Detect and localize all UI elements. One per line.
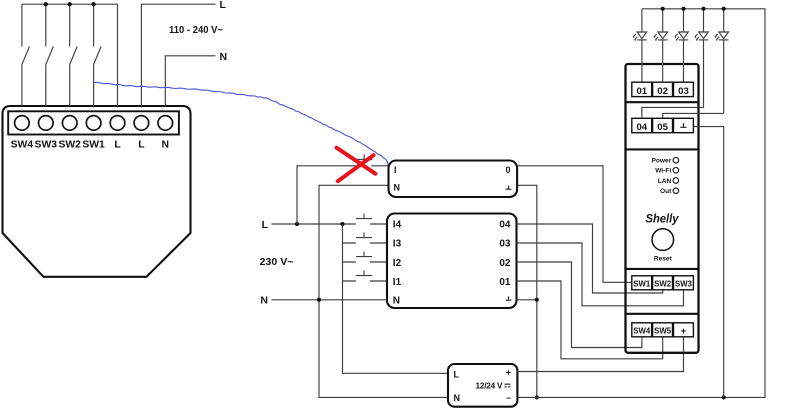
push button at I input <box>356 154 373 159</box>
svg-text:0: 0 <box>505 165 510 175</box>
wire button stub at y=281 <box>343 280 388 282</box>
svg-text:SW2: SW2 <box>654 279 671 289</box>
wire N riser (box1 N / PSU N) <box>319 185 448 397</box>
svg-text:01: 01 <box>636 86 647 97</box>
dc symbol <box>505 384 511 387</box>
svg-text:N: N <box>260 295 268 307</box>
wire 05 terminal to LED D5 <box>663 113 724 118</box>
section divider <box>626 101 699 103</box>
terminal box 01 <box>632 82 652 96</box>
junction dot gnd/gnd <box>535 298 539 302</box>
wire gnd row2 to minus <box>693 127 723 398</box>
device body (Shelly relay module, octagon outline) <box>3 106 191 277</box>
svg-text:N: N <box>220 51 228 63</box>
svg-text:SW4: SW4 <box>633 326 650 336</box>
junction dot minus/gnd-row2 <box>722 395 726 399</box>
svg-text:LAN: LAN <box>658 178 672 185</box>
svg-text:L: L <box>114 140 121 151</box>
wall switch S2 (to SW2) <box>70 4 78 106</box>
wire 04 terminal to LED D4 <box>642 107 704 118</box>
wall switch S3 (to SW3) <box>46 4 54 106</box>
svg-text:230 V~: 230 V~ <box>260 257 294 268</box>
wall switch S1 (to SW1) <box>94 4 102 106</box>
svg-text:110 - 240 V~: 110 - 240 V~ <box>169 24 223 36</box>
junction dot LED bus <box>661 7 665 11</box>
junction dot N line <box>317 298 321 302</box>
terminal box SW3 <box>674 276 694 290</box>
svg-text:L: L <box>138 140 145 151</box>
svg-text:Shelly: Shelly <box>646 214 680 226</box>
svg-text:04: 04 <box>499 220 511 231</box>
svg-text:SW2: SW2 <box>58 140 81 151</box>
wire I input branch (crossed out) <box>297 166 389 224</box>
wire PSU + to plus terminal <box>517 337 683 372</box>
wire button bus to PSU L <box>343 224 449 373</box>
status LED dot Wi-Fi <box>673 168 679 174</box>
screw terminal SW4 <box>15 116 30 131</box>
wire L line to I4 <box>271 223 387 225</box>
wire supply N to terminal N <box>165 56 215 106</box>
svg-text:SW3: SW3 <box>35 140 58 151</box>
wire PSU - to LED bus <box>517 9 765 398</box>
terminal labels row <box>11 140 169 151</box>
wire 01 to SW5 <box>517 281 663 359</box>
LED D1 <box>633 9 646 82</box>
svg-text:SW3: SW3 <box>675 279 692 289</box>
svg-text:03: 03 <box>499 239 511 250</box>
wire 03 to SW3 <box>517 243 684 306</box>
terminal box + (row D) <box>674 323 694 337</box>
junction dot LED bus <box>701 7 705 11</box>
svg-text:I1: I1 <box>393 277 402 288</box>
wire 04 to SW2 <box>517 224 663 293</box>
svg-text:L: L <box>220 0 227 11</box>
wire box U1 output 0 to SW1 <box>517 166 632 282</box>
svg-text:SW1: SW1 <box>82 140 105 151</box>
status LED dot Out <box>673 188 679 194</box>
junction dot gnd/minus <box>535 395 539 399</box>
terminal box 02 <box>653 82 673 96</box>
wire N supply line <box>271 299 387 301</box>
svg-text:Wi-Fi: Wi-Fi <box>655 168 671 175</box>
DIN device outline <box>626 64 699 353</box>
reset button <box>652 229 674 251</box>
pin symbol gnd (box U2) <box>506 296 512 300</box>
svg-text:+: + <box>506 367 511 377</box>
svg-text:03: 03 <box>678 86 689 97</box>
svg-text:04: 04 <box>636 122 647 133</box>
terminal box gnd (row B) <box>674 118 694 132</box>
LED D2 <box>654 9 667 82</box>
wire supply L to terminal L <box>141 4 215 106</box>
push button I4 row <box>356 214 372 219</box>
svg-text:SW5: SW5 <box>654 326 671 336</box>
terminal box SW1 <box>632 276 652 290</box>
push button I row <box>356 271 372 276</box>
junction dot L/button-bus <box>340 222 344 226</box>
LED D3 <box>675 9 688 82</box>
terminal box SW5 <box>653 323 673 337</box>
terminal box 03 <box>674 82 694 96</box>
svg-text:I3: I3 <box>393 239 402 250</box>
terminal box SW2 <box>653 276 673 290</box>
push button I row <box>356 233 372 238</box>
junction dot LED bus <box>722 7 726 11</box>
svg-text:02: 02 <box>657 86 668 97</box>
terminal strip box <box>8 111 179 134</box>
svg-text:+: + <box>681 325 687 336</box>
svg-text:02: 02 <box>499 258 511 269</box>
pin symbol gnd (box U1) <box>506 186 512 190</box>
wire button stub at y=243 <box>343 242 388 244</box>
screw terminal N <box>158 116 173 131</box>
svg-text:N: N <box>393 296 400 307</box>
svg-text:N: N <box>394 183 401 193</box>
svg-text:12/24 V: 12/24 V <box>476 382 504 391</box>
hand-drawn blue wire SW1 to I <box>94 82 389 165</box>
section divider <box>626 313 699 315</box>
svg-text:Reset: Reset <box>654 256 673 263</box>
status LED dot LAN <box>673 178 679 184</box>
wire switched-L bus <box>22 4 118 106</box>
svg-text:I4: I4 <box>393 220 402 231</box>
PSU 12/24V box <box>448 364 517 407</box>
LED D5 <box>715 9 728 114</box>
section divider <box>626 268 699 270</box>
svg-text:L: L <box>454 370 460 380</box>
wire 02 to SW4 <box>517 262 642 348</box>
wall switch S4 (to SW4) <box>22 4 30 106</box>
box U1 (1-channel switch module) <box>389 161 518 198</box>
junction dot L/I-branch <box>295 222 299 226</box>
section divider <box>626 148 699 150</box>
wire button stub at y=262 <box>343 261 388 263</box>
svg-text:Out: Out <box>660 188 672 195</box>
wire box U1 gnd tie <box>517 185 537 397</box>
svg-text:N: N <box>454 393 461 403</box>
junction dot LED bus <box>681 7 685 11</box>
svg-text:N: N <box>162 140 170 151</box>
push button I row <box>356 252 372 257</box>
svg-text:05: 05 <box>657 122 668 133</box>
red X cross-out stroke 2 <box>338 155 374 181</box>
status LED dot Power <box>673 157 679 163</box>
screw terminal L <box>134 116 149 131</box>
svg-text:I: I <box>394 165 397 175</box>
LED D4 <box>695 9 708 108</box>
red X cross-out stroke 1 <box>337 148 376 174</box>
svg-text:SW1: SW1 <box>633 279 650 289</box>
terminal box 04 <box>632 118 652 132</box>
terminal box 05 <box>653 118 673 132</box>
svg-text:SW4: SW4 <box>11 140 34 151</box>
terminal box SW4 <box>632 323 652 337</box>
junction dot on bus <box>92 2 96 6</box>
box U2 (4-channel switch module) <box>387 214 517 309</box>
junction dot on bus <box>44 2 48 6</box>
svg-text:–: – <box>506 393 511 403</box>
svg-text:Power: Power <box>652 158 672 165</box>
screw terminal SW1 <box>86 116 101 131</box>
screw terminal L <box>110 116 125 131</box>
svg-text:I2: I2 <box>393 258 402 269</box>
svg-text:01: 01 <box>499 277 511 288</box>
screw terminal SW3 <box>39 116 54 131</box>
wire box U2 gnd stub <box>517 299 537 301</box>
screw terminal SW2 <box>62 116 77 131</box>
svg-text:L: L <box>262 219 269 231</box>
junction dot on bus <box>68 2 72 6</box>
